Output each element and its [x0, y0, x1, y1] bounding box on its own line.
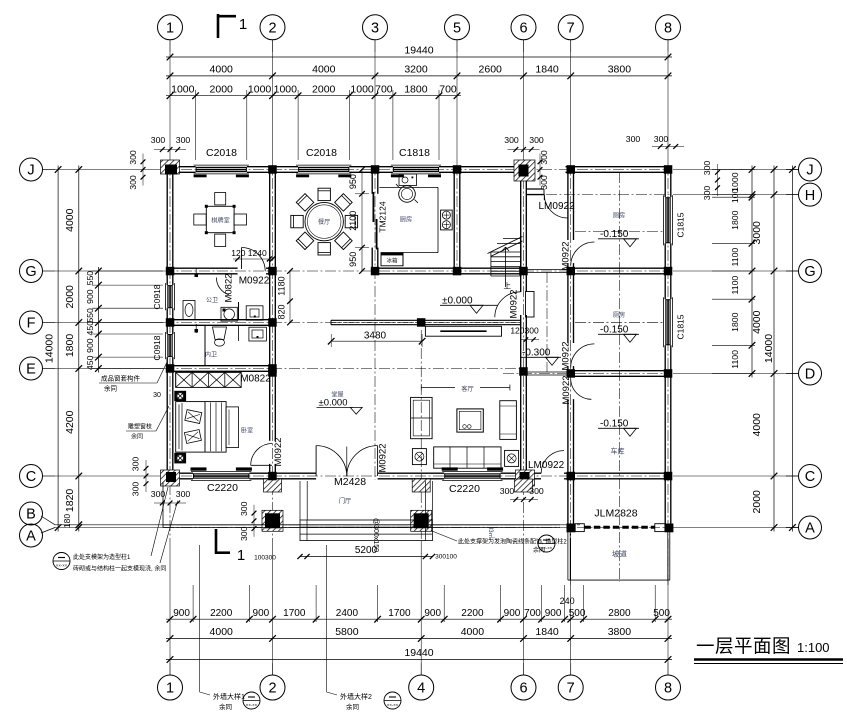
svg-text:M0822: M0822	[224, 273, 235, 302]
svg-text:120 1240: 120 1240	[231, 248, 267, 258]
svg-text:300: 300	[239, 526, 249, 541]
svg-text:1700: 1700	[283, 608, 306, 619]
svg-text:上: 上	[504, 282, 512, 291]
svg-text:卧室: 卧室	[241, 427, 253, 435]
svg-text:雕塑窗枝: 雕塑窗枝	[128, 423, 152, 431]
svg-text:M0822: M0822	[240, 374, 271, 385]
svg-text:此处支撑架为发泡陶瓷线条配饰, 造型柱2: 此处支撑架为发泡陶瓷线条配饰, 造型柱2	[458, 538, 567, 546]
svg-text:7: 7	[567, 21, 575, 37]
svg-text:J: J	[806, 163, 813, 179]
svg-text:C1815: C1815	[676, 314, 686, 339]
svg-text:餐厅: 餐厅	[318, 218, 330, 226]
svg-text:砖砌或与结构柱一起支模现浇, 余同: 砖砌或与结构柱一起支模现浇, 余同	[73, 565, 166, 573]
svg-text:客厅: 客厅	[461, 385, 473, 393]
svg-text:700: 700	[439, 83, 457, 95]
svg-text:±0.000: ±0.000	[442, 296, 473, 307]
svg-text:±0.000: ±0.000	[319, 398, 348, 409]
svg-text:余同: 余同	[219, 702, 232, 711]
svg-text:一层平面图: 一层平面图	[696, 636, 791, 657]
svg-text:300100: 300100	[435, 554, 457, 561]
svg-text:3: 3	[371, 21, 379, 37]
svg-text:950: 950	[348, 174, 358, 189]
svg-text:700: 700	[524, 608, 541, 619]
svg-text:550: 550	[85, 271, 95, 286]
svg-text:300: 300	[626, 134, 641, 144]
svg-text:@300x150: @300x150	[372, 518, 379, 552]
svg-text:900: 900	[424, 608, 441, 619]
svg-text:1800: 1800	[64, 334, 76, 358]
svg-text:C2018: C2018	[306, 147, 337, 159]
svg-text:C1818: C1818	[399, 147, 430, 159]
svg-text:1000: 1000	[274, 83, 298, 95]
svg-text:300: 300	[151, 489, 166, 499]
svg-text:4: 4	[417, 681, 425, 697]
svg-text:G: G	[25, 264, 36, 280]
svg-text:5: 5	[453, 21, 461, 37]
svg-text:1800: 1800	[730, 312, 740, 331]
svg-text:900: 900	[85, 289, 95, 304]
svg-text:M0922: M0922	[509, 289, 520, 318]
svg-text:300: 300	[529, 486, 544, 496]
svg-text:19440: 19440	[404, 45, 433, 57]
svg-text:M0922: M0922	[239, 276, 270, 287]
svg-text:余同: 余同	[346, 702, 359, 711]
svg-text:M0922: M0922	[561, 241, 572, 270]
svg-text:F: F	[27, 316, 36, 332]
svg-text:4000: 4000	[64, 208, 76, 232]
svg-text:LM0922: LM0922	[528, 460, 565, 471]
svg-text:冰箱: 冰箱	[386, 257, 398, 265]
svg-text:内卫: 内卫	[205, 351, 217, 359]
svg-text:300: 300	[128, 150, 138, 165]
svg-text:180: 180	[62, 514, 72, 528]
svg-text:1100: 1100	[730, 276, 740, 295]
svg-text:240: 240	[560, 596, 575, 606]
svg-text:C0918: C0918	[152, 335, 162, 360]
svg-text:14000: 14000	[44, 334, 56, 363]
svg-text:900: 900	[85, 338, 95, 353]
svg-text:900: 900	[504, 608, 521, 619]
svg-text:外墙大样1: 外墙大样1	[213, 692, 245, 701]
svg-text:2800: 2800	[608, 608, 631, 619]
svg-text:厕房: 厕房	[613, 212, 625, 220]
svg-text:2600: 2600	[479, 64, 503, 76]
svg-text:300: 300	[128, 175, 138, 190]
svg-text:2200: 2200	[210, 608, 233, 619]
svg-text:1: 1	[166, 21, 174, 37]
svg-text:3800: 3800	[608, 64, 632, 76]
svg-text:900: 900	[173, 608, 190, 619]
svg-text:4200: 4200	[64, 410, 76, 434]
svg-text:19440: 19440	[404, 647, 433, 659]
svg-text:2000: 2000	[751, 490, 763, 514]
svg-text:300: 300	[239, 501, 249, 516]
svg-text:1180: 1180	[277, 276, 287, 295]
svg-text:1000: 1000	[350, 83, 374, 95]
svg-text:900: 900	[253, 608, 270, 619]
svg-text:2100: 2100	[348, 211, 358, 231]
svg-text:700: 700	[375, 83, 393, 95]
svg-text:棋牌室: 棋牌室	[211, 217, 230, 225]
svg-text:1100: 1100	[730, 350, 740, 369]
svg-text:C1815: C1815	[676, 212, 686, 237]
svg-text:2400: 2400	[336, 608, 359, 619]
svg-text:300: 300	[131, 457, 141, 472]
svg-text:B: B	[26, 507, 36, 523]
svg-text:30: 30	[153, 392, 161, 399]
svg-text:C: C	[805, 469, 815, 485]
svg-text:4000: 4000	[751, 413, 763, 437]
svg-text:××-××: ××-××	[246, 703, 258, 708]
svg-text:D: D	[805, 367, 815, 383]
svg-text:4000: 4000	[751, 310, 763, 334]
svg-text:JLM2828: JLM2828	[594, 508, 637, 520]
svg-text:8: 8	[664, 21, 672, 37]
svg-text:500: 500	[653, 608, 670, 619]
svg-text:成品窗套构件: 成品窗套构件	[101, 374, 141, 383]
svg-text:1:100: 1:100	[797, 640, 830, 655]
svg-text:LM0922: LM0922	[539, 201, 576, 212]
svg-text:J: J	[27, 163, 34, 179]
svg-text:450: 450	[85, 321, 95, 336]
svg-text:2000: 2000	[64, 285, 76, 309]
svg-text:300: 300	[176, 135, 191, 145]
svg-text:厕房: 厕房	[613, 311, 625, 319]
svg-text:H: H	[805, 188, 815, 204]
svg-text:G: G	[804, 264, 815, 280]
svg-text:500: 500	[569, 608, 586, 619]
svg-text:车库: 车库	[611, 447, 625, 456]
svg-text:5800: 5800	[335, 626, 359, 638]
svg-text:4000: 4000	[312, 64, 336, 76]
svg-text:C0918: C0918	[152, 284, 162, 309]
svg-text:300: 300	[176, 489, 191, 499]
svg-text:门厅: 门厅	[339, 497, 351, 505]
svg-text:550: 550	[85, 308, 95, 323]
svg-text:1800: 1800	[730, 210, 740, 229]
svg-text:××-××: ××-××	[56, 563, 68, 568]
svg-text:100: 100	[730, 188, 740, 203]
svg-text:1: 1	[237, 547, 245, 564]
svg-text:8: 8	[664, 681, 672, 697]
svg-text:-0.300: -0.300	[522, 348, 551, 359]
svg-text:余同: 余同	[104, 384, 117, 393]
svg-text:1700: 1700	[388, 608, 411, 619]
svg-text:此处支模架为造型柱1: 此处支模架为造型柱1	[73, 553, 131, 561]
svg-text:1: 1	[166, 681, 174, 697]
svg-text:C2220: C2220	[449, 483, 480, 495]
svg-text:C2018: C2018	[206, 147, 237, 159]
svg-text:1820: 1820	[64, 489, 76, 513]
svg-text:300: 300	[151, 135, 166, 145]
svg-text:-0.150: -0.150	[600, 229, 629, 240]
svg-text:C2220: C2220	[207, 482, 238, 494]
svg-text:450: 450	[85, 355, 95, 370]
svg-text:300: 300	[131, 482, 141, 497]
svg-text:14000: 14000	[763, 334, 775, 363]
svg-text:300: 300	[504, 135, 519, 145]
svg-text:3480: 3480	[364, 331, 387, 342]
svg-text:A: A	[26, 529, 36, 545]
svg-text:M0922: M0922	[273, 437, 284, 466]
svg-text:300: 300	[500, 486, 515, 496]
svg-text:1800: 1800	[404, 83, 428, 95]
svg-text:2: 2	[268, 681, 276, 697]
svg-text:300: 300	[654, 134, 669, 144]
svg-text:3200: 3200	[404, 64, 428, 76]
svg-text:××-××: ××-××	[387, 703, 399, 708]
svg-text:Ⅰ3㎡: Ⅰ3㎡	[487, 527, 495, 538]
svg-text:1000: 1000	[248, 83, 272, 95]
svg-text:300: 300	[702, 186, 712, 201]
svg-text:300: 300	[529, 135, 544, 145]
svg-text:1840: 1840	[535, 626, 559, 638]
svg-text:2: 2	[268, 21, 276, 37]
svg-text:4000: 4000	[210, 626, 234, 638]
svg-text:余同: 余同	[131, 433, 143, 441]
svg-text:3000: 3000	[751, 221, 763, 245]
svg-text:M2428: M2428	[334, 476, 366, 488]
svg-text:900: 900	[545, 608, 562, 619]
svg-text:TM2124: TM2124	[378, 201, 388, 232]
svg-text:2200: 2200	[461, 608, 484, 619]
svg-text:7: 7	[567, 681, 575, 697]
svg-text:1100: 1100	[730, 248, 740, 267]
svg-text:6: 6	[519, 21, 527, 37]
svg-text:××-××: ××-××	[541, 546, 553, 551]
svg-text:外墙大样2: 外墙大样2	[340, 692, 372, 701]
svg-text:1: 1	[239, 16, 247, 33]
svg-text:-0.150: -0.150	[600, 325, 629, 336]
svg-text:820: 820	[277, 304, 287, 319]
svg-text:2000: 2000	[210, 83, 234, 95]
svg-text:300: 300	[539, 150, 549, 165]
svg-text:E: E	[26, 362, 36, 378]
svg-text:A: A	[805, 521, 815, 537]
svg-text:6: 6	[519, 681, 527, 697]
svg-text:公卫: 公卫	[206, 297, 218, 304]
svg-text:C: C	[26, 469, 36, 485]
svg-text:M0922: M0922	[378, 443, 389, 472]
svg-text:M0922: M0922	[561, 375, 572, 404]
svg-text:坡道: 坡道	[612, 549, 627, 559]
svg-text:4000: 4000	[461, 626, 485, 638]
svg-text:-0.150: -0.150	[600, 419, 629, 430]
svg-text:M0922: M0922	[561, 341, 572, 370]
svg-text:2000: 2000	[312, 83, 336, 95]
svg-text:300: 300	[702, 161, 712, 176]
svg-text:1000: 1000	[171, 83, 195, 95]
svg-text:950: 950	[348, 252, 358, 267]
svg-text:120300: 120300	[510, 326, 539, 336]
svg-text:3800: 3800	[608, 626, 632, 638]
svg-text:1840: 1840	[535, 64, 559, 76]
svg-text:4000: 4000	[210, 64, 234, 76]
svg-text:厨房: 厨房	[400, 216, 412, 224]
svg-text:100300: 100300	[254, 555, 276, 562]
